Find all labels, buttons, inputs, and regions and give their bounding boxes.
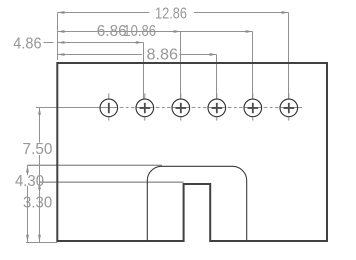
svg-text:12.86: 12.86 xyxy=(155,6,187,23)
svg-text:4.30: 4.30 xyxy=(15,173,44,190)
svg-text:6.86: 6.86 xyxy=(97,23,127,40)
svg-text:8.86: 8.86 xyxy=(147,47,179,64)
svg-text:7.50: 7.50 xyxy=(23,141,53,158)
svg-text:10.86: 10.86 xyxy=(123,23,156,40)
svg-text:3.30: 3.30 xyxy=(23,194,52,211)
svg-text:4.86: 4.86 xyxy=(13,35,41,52)
